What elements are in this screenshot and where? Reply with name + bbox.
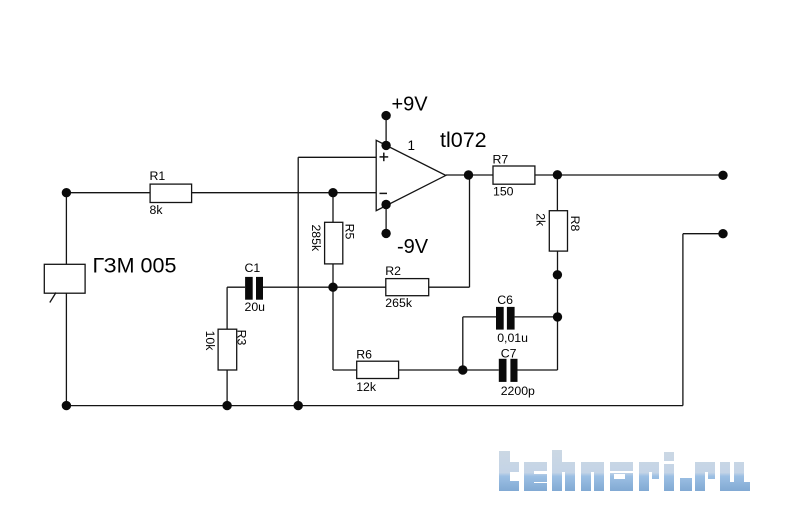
wire R5 bottom lead xyxy=(332,264,334,287)
wire R2 feedback vertical to output xyxy=(469,175,471,287)
wire C1 left to R3 top xyxy=(226,287,228,329)
node output terminal 2 xyxy=(718,229,727,238)
wire input node to R1 xyxy=(66,192,150,194)
svg-text:1: 1 xyxy=(408,138,416,153)
resistor R1 xyxy=(150,184,192,202)
node C6 right junction xyxy=(553,312,562,321)
svg-text:C7: C7 xyxy=(501,347,517,361)
node noninverting ground xyxy=(294,401,303,410)
svg-text:12k: 12k xyxy=(356,380,377,394)
svg-text:-9V: -9V xyxy=(397,236,429,258)
node R3 ground xyxy=(222,401,231,410)
svg-text:R7: R7 xyxy=(493,153,509,167)
wire op-amp output to R7 xyxy=(446,174,493,176)
svg-text:8k: 8k xyxy=(150,203,164,217)
svg-text:20u: 20u xyxy=(245,300,266,314)
svg-text:R2: R2 xyxy=(385,264,401,278)
wire -9V supply lead xyxy=(385,205,387,234)
wire R3 bottom to ground rail xyxy=(226,370,228,406)
resistor R6 xyxy=(357,361,399,378)
wire R5 top lead xyxy=(332,193,334,223)
node -9V terminal xyxy=(381,229,390,238)
node output junction xyxy=(464,170,473,179)
wire node A to R2 xyxy=(333,286,386,288)
node input junction xyxy=(62,188,71,197)
node R6-C7 junction xyxy=(458,365,467,374)
svg-text:2k: 2k xyxy=(533,213,547,227)
wire node A down to R6 xyxy=(332,287,334,370)
wire non-inverting input xyxy=(298,156,376,158)
svg-text:2200p: 2200p xyxy=(501,384,535,398)
resistor R8 xyxy=(549,211,567,251)
wire C7 right plate to right column xyxy=(518,369,558,371)
svg-text:R8: R8 xyxy=(568,216,582,232)
node +9V terminal xyxy=(381,111,390,120)
node op-amp V- pin xyxy=(381,200,390,209)
op-amp plus input sign xyxy=(380,153,389,162)
wire C1 right plate to node A xyxy=(263,286,333,288)
wire +9V supply lead xyxy=(385,116,387,146)
wire C6 right plate to right column xyxy=(515,316,558,318)
svg-text:285k: 285k xyxy=(309,224,323,252)
svg-text:tl072: tl072 xyxy=(440,128,487,152)
svg-text:R6: R6 xyxy=(356,347,372,361)
wire to R6 left xyxy=(333,369,357,371)
svg-text:C6: C6 xyxy=(497,293,513,307)
svg-text:+9V: +9V xyxy=(392,93,429,115)
svg-text:R3: R3 xyxy=(235,330,249,346)
cartridge stylus diagonal xyxy=(50,293,56,303)
wire C6 branch vertical xyxy=(462,317,464,370)
wire ground rail xyxy=(66,405,683,407)
wire R8 bottom column xyxy=(557,251,559,370)
watermark tehnari.ru xyxy=(499,450,750,491)
svg-text:265k: 265k xyxy=(385,296,413,310)
op-amp minus input sign xyxy=(380,192,388,194)
node R5 top junction xyxy=(328,188,337,197)
op-amp U1 triangle xyxy=(376,140,446,210)
svg-text:10k: 10k xyxy=(203,331,217,352)
capacitor C7 plates xyxy=(499,359,507,382)
resistor R2 xyxy=(386,279,429,296)
node A feedback junction xyxy=(328,283,337,292)
capacitor C1 plates xyxy=(245,277,253,300)
node R8 bottom xyxy=(553,270,562,279)
svg-text:ГЗМ 005: ГЗМ 005 xyxy=(93,254,177,278)
cartridge ГЗМ 005 body xyxy=(44,264,85,293)
node R7-R8 junction xyxy=(553,170,562,179)
node op-amp V+ pin xyxy=(381,141,390,150)
svg-text:R1: R1 xyxy=(150,169,166,183)
wire R2 right xyxy=(429,286,470,288)
resistor R5 xyxy=(325,222,343,264)
svg-text:150: 150 xyxy=(493,185,514,199)
resistor R3 xyxy=(218,329,237,370)
wire lower terminal horizontal xyxy=(683,233,723,235)
wire cartridge bottom lead xyxy=(65,293,67,405)
wire cartridge top lead xyxy=(65,193,67,265)
svg-text:R5: R5 xyxy=(343,224,357,240)
wire R7 right to output terminal xyxy=(535,174,723,176)
node output terminal 1 xyxy=(718,171,727,180)
node ground rail left xyxy=(62,401,71,410)
wire lower terminal vertical from ground rail xyxy=(682,234,684,406)
resistor R7 xyxy=(493,166,535,184)
capacitor C6 plates xyxy=(496,307,504,330)
svg-text:C1: C1 xyxy=(245,261,261,275)
wire output node to R8 top xyxy=(556,175,558,211)
wire to C1 left plate xyxy=(227,286,245,288)
wire R1 to op-amp inverting input xyxy=(192,192,377,194)
wire R6 right to C7 xyxy=(399,369,499,371)
wire to C6 left plate xyxy=(463,316,496,318)
svg-text:0,01u: 0,01u xyxy=(497,331,528,345)
wire non-inverting input to ground rail xyxy=(297,157,299,405)
